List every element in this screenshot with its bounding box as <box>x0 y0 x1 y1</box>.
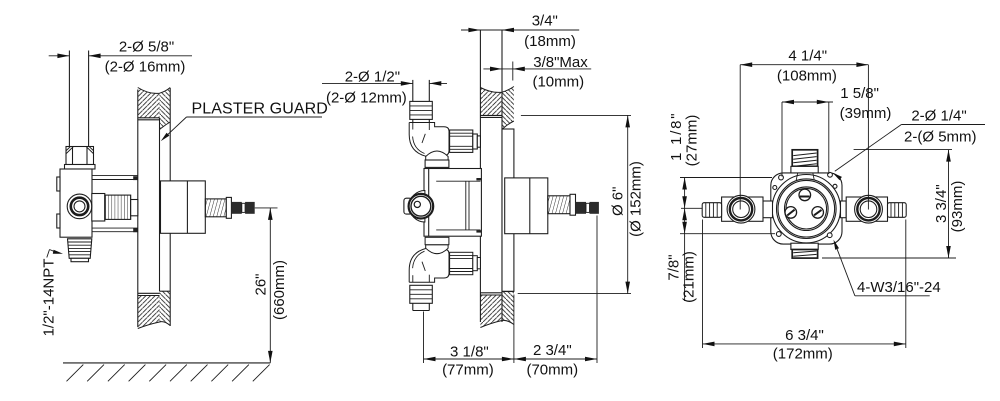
body left lugs <box>57 177 60 191</box>
top supply tube and barb <box>412 80 414 102</box>
outlet stub lines to wall top <box>92 175 138 177</box>
left barb fitting <box>702 203 721 218</box>
svg-text:2-(Ø 5mm): 2-(Ø 5mm) <box>904 128 977 145</box>
wall stud left line <box>137 90 139 328</box>
cartridge splined section <box>105 195 131 219</box>
wall left line / extension <box>479 30 481 322</box>
left arm hex and union <box>763 201 773 218</box>
wall hatch top block middle view <box>480 88 502 116</box>
guard flange thickness extension tick <box>512 62 514 81</box>
right barb fitting <box>888 203 907 218</box>
svg-text:(172mm): (172mm) <box>773 346 833 363</box>
plaster guard sleeve edge line <box>159 118 161 291</box>
svg-text:(2-Ø 12mm): (2-Ø 12mm) <box>326 90 407 107</box>
wall section hatch bottom block <box>138 296 160 329</box>
svg-text:(660mm): (660mm) <box>271 260 288 320</box>
svg-text:(93mm): (93mm) <box>949 181 966 233</box>
top threaded port <box>792 150 817 167</box>
svg-text:6 3/4": 6 3/4" <box>785 327 824 344</box>
svg-text:Ø 6": Ø 6" <box>610 187 627 217</box>
stem ring <box>226 197 231 218</box>
dimension 2-O 1/2in (2-O 12mm) <box>322 82 413 84</box>
svg-text:3/8"Max: 3/8"Max <box>533 54 588 71</box>
stem height extension line <box>255 207 278 209</box>
cartridge housing <box>92 194 105 222</box>
flange body outer circle <box>772 175 840 243</box>
svg-text:4-W3/16"-24: 4-W3/16"-24 <box>857 279 941 296</box>
dimension 2-O 5/8in (2-O 16mm) <box>49 55 70 57</box>
svg-text:3 1/8": 3 1/8" <box>450 343 489 360</box>
bottom supply barb and stub <box>410 285 433 303</box>
svg-text:(10mm): (10mm) <box>532 73 584 90</box>
svg-text:2-Ø 1/2": 2-Ø 1/2" <box>345 68 400 85</box>
svg-text:1 5/8": 1 5/8" <box>840 85 879 102</box>
floor / ground line <box>63 362 270 364</box>
svg-text:(21mm): (21mm) <box>681 251 698 303</box>
flange bolt holes <box>779 175 784 180</box>
dimension O 6in (O 152mm) guard diameter <box>521 114 631 116</box>
svg-text:PLASTER GUARD: PLASTER GUARD <box>192 101 328 118</box>
valve top hex inlet fitting <box>66 147 94 165</box>
svg-text:1/2"-14NPT: 1/2"-14NPT <box>41 259 58 337</box>
valve stem (middle view) <box>548 196 570 214</box>
outlet stub lines to wall bottom <box>92 227 138 229</box>
flange inner rings <box>777 179 837 239</box>
dimension 26in (660mm) vertical line <box>269 208 271 363</box>
svg-text:3 3/4": 3 3/4" <box>933 184 950 223</box>
left union nut circles <box>727 195 755 223</box>
wall stud right line <box>169 88 171 326</box>
wall right line / extension <box>501 30 503 322</box>
wall hatch bottom block middle view <box>480 295 502 328</box>
svg-text:(2-Ø 16mm): (2-Ø 16mm) <box>105 59 186 76</box>
dimension 2 3/4in (70mm) <box>514 358 597 360</box>
bottom threaded port <box>791 243 818 249</box>
dimension 3 1/8in (77mm) <box>424 358 514 360</box>
svg-text:2-Ø 1/4": 2-Ø 1/4" <box>911 108 966 125</box>
label 1/2in-14NPT leader <box>47 250 50 258</box>
svg-text:(Ø 152mm): (Ø 152mm) <box>627 161 644 237</box>
svg-text:3/4": 3/4" <box>532 13 558 30</box>
plaster guard flange plate (section) <box>502 129 514 291</box>
valve main body (middle view) <box>424 169 481 237</box>
svg-text:2-Ø 5/8": 2-Ø 5/8" <box>119 39 174 56</box>
right union nut circles <box>855 195 883 223</box>
right arm hex and union <box>841 201 847 218</box>
inlet port boss circles <box>67 194 92 219</box>
svg-text:(27mm): (27mm) <box>683 115 700 167</box>
svg-text:2 3/4": 2 3/4" <box>533 342 572 359</box>
bottom NPT threaded fitting <box>68 239 92 258</box>
supply riser tube (vertical pipe) <box>68 51 70 147</box>
valve stem threaded section <box>205 199 226 217</box>
svg-text:(77mm): (77mm) <box>442 362 494 379</box>
ground hatch strokes <box>67 365 84 382</box>
cartridge screws inside bore <box>799 189 811 201</box>
top elbow assembly group <box>409 123 449 168</box>
svg-text:(70mm): (70mm) <box>526 362 578 379</box>
svg-text:4 1/4": 4 1/4" <box>788 48 827 65</box>
flange mounting plate (rounded square) <box>771 173 842 244</box>
dimension 3/4in (18mm) wall thickness <box>461 29 579 31</box>
dimension 6 3/4in (172mm) <box>702 220 704 349</box>
dimension 4 1/4in (108mm) <box>739 65 741 210</box>
inlet port boss (middle view) <box>409 191 425 223</box>
stem knurled handle sections <box>231 202 241 214</box>
svg-text:(108mm): (108mm) <box>777 68 837 85</box>
cartridge stem collar to wall <box>131 200 138 216</box>
svg-text:(39mm): (39mm) <box>840 105 892 122</box>
bottom extension lines middle view <box>423 312 425 364</box>
valve body (left view) <box>60 169 92 237</box>
wall section hatch top block <box>138 88 160 118</box>
plaster guard cup (middle view) <box>505 178 548 234</box>
dimension 3/8in Max (10mm) <box>483 68 591 70</box>
bottom elbow assembly group (mirror) <box>409 237 480 282</box>
dimension 3 3/4in (93mm) <box>854 149 952 151</box>
plaster guard cup (side view) <box>161 181 206 233</box>
left vertical dimensions 1 1/8in and 7/8in <box>680 177 772 179</box>
retainer clip marks at wall <box>133 176 138 180</box>
svg-text:(18mm): (18mm) <box>524 33 576 50</box>
svg-text:26": 26" <box>253 273 270 295</box>
top port collar <box>791 166 818 173</box>
dimension 1 5/8in (39mm) <box>781 102 783 177</box>
top hex nut to wall <box>450 130 473 152</box>
